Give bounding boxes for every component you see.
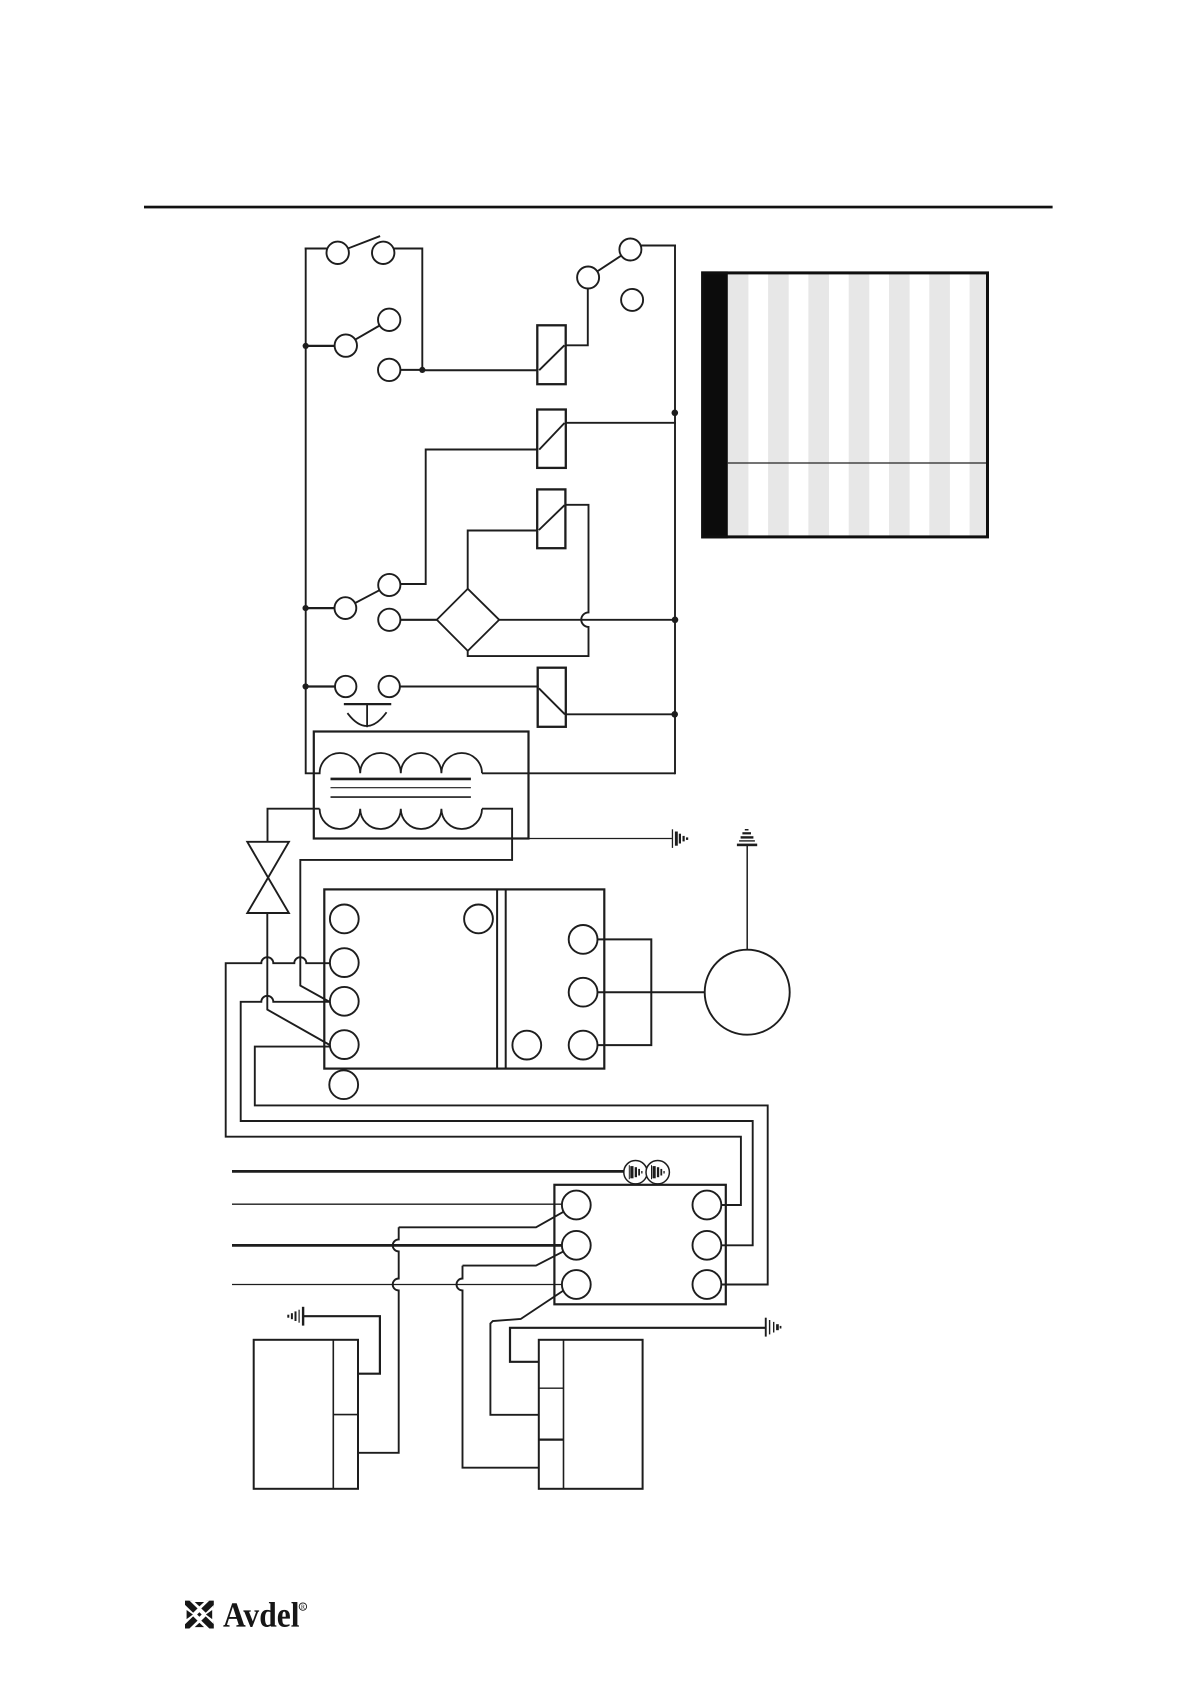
svg-text:Avdel: Avdel bbox=[223, 1595, 300, 1635]
